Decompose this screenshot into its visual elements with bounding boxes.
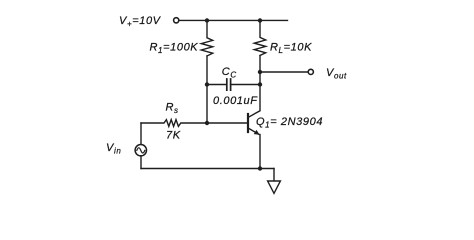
svg-text:Vin: Vin <box>106 142 121 156</box>
node emitter-ground junction <box>258 166 262 170</box>
terminal Vout <box>308 69 313 74</box>
source Vin <box>135 145 146 156</box>
terminal V+ <box>174 18 179 23</box>
svg-text:Rs: Rs <box>166 102 179 116</box>
wire top rail <box>179 19 288 21</box>
capacitor Cc plates <box>227 79 231 90</box>
node base junction <box>205 121 209 125</box>
node rail-RL junction <box>258 18 262 22</box>
wire source bottom drop <box>140 156 142 169</box>
wire Rs left drop <box>140 123 142 145</box>
wire ground drop <box>273 169 275 182</box>
wire bottom rail <box>141 168 274 170</box>
svg-text:RL=10K: RL=10K <box>270 42 312 56</box>
svg-text:7K: 7K <box>166 130 181 142</box>
node rail-R1 junction <box>205 18 209 22</box>
node Vout junction <box>258 70 262 74</box>
node Cc-left junction <box>205 82 209 86</box>
wire R1 bottom to base node <box>206 56 208 123</box>
svg-text:0.001uF: 0.001uF <box>213 95 258 107</box>
ground <box>268 181 281 193</box>
svg-text:Q1= 2N3904: Q1= 2N3904 <box>256 116 323 130</box>
wire base <box>207 122 247 124</box>
svg-text:R1=100K: R1=100K <box>150 42 199 56</box>
wire Cc left lead <box>207 84 226 86</box>
svg-text:CC: CC <box>222 66 237 80</box>
svg-text:Vout: Vout <box>326 67 347 81</box>
svg-text:V+=10V: V+=10V <box>119 15 162 29</box>
transistor Q1 <box>248 111 260 135</box>
resistor RL <box>254 21 265 56</box>
wire Vout tap <box>260 71 308 73</box>
wire emitter down <box>259 135 261 169</box>
resistor R1 <box>201 21 212 56</box>
node Cc-right junction <box>258 82 262 86</box>
wire Cc right lead <box>231 84 260 86</box>
wire RL bottom to collector <box>259 56 261 110</box>
resistor Rs <box>141 120 207 127</box>
